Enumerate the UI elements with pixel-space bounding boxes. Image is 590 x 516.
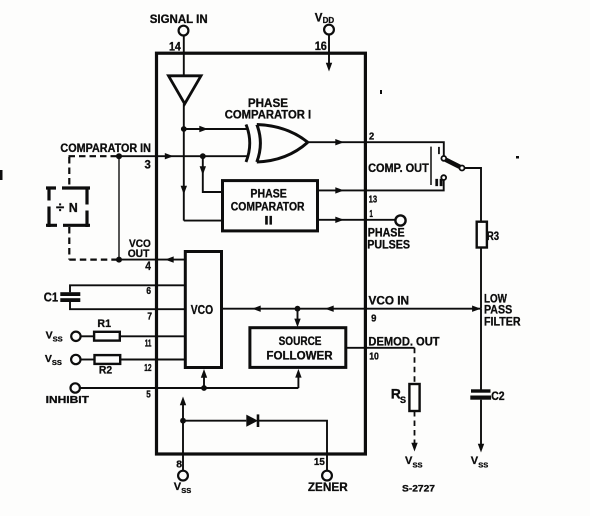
speck right	[516, 156, 519, 159]
svg-text:10: 10	[369, 350, 379, 362]
wire VSS to R2	[81, 359, 95, 361]
arrow down into SF	[294, 319, 300, 328]
arrow right on pin3 wire	[165, 153, 174, 159]
wire R1 to pin 11	[120, 335, 186, 337]
svg-text:COMPARATOR: COMPARATOR	[231, 201, 305, 213]
wire R2 to pin 12	[120, 359, 185, 361]
wire dashed down to RS	[414, 348, 416, 384]
capacitor C2	[471, 389, 491, 392]
wire VSS to R1	[81, 335, 95, 337]
svg-text:ZENER: ZENER	[308, 482, 349, 494]
arrow up VSS internal	[180, 397, 186, 406]
wire pin 1	[318, 219, 396, 221]
wire dashed RS down	[414, 411, 416, 443]
resistor R1	[94, 332, 120, 341]
svg-text:II: II	[264, 215, 272, 227]
svg-text:SIGNAL IN: SIGNAL IN	[150, 12, 208, 26]
svg-text:DEMOD. OUT: DEMOD. OUT	[368, 337, 439, 349]
speck top right	[380, 90, 382, 94]
switch contact II	[441, 175, 446, 180]
wire pin 8 internal VSS	[182, 403, 184, 471]
amplifier A1	[169, 76, 202, 104]
wire to XOR top input	[184, 128, 248, 130]
wire diode cathode to pin 15	[258, 421, 327, 471]
arrow down VSS (C2)	[478, 444, 484, 453]
capacitor C1	[60, 292, 80, 296]
svg-text:14: 14	[169, 41, 181, 53]
wire pin16 into package	[328, 35, 330, 65]
wire direct link node3 to node4	[118, 156, 120, 259]
svg-text:II: II	[435, 178, 444, 189]
terminal pin 15	[322, 471, 332, 481]
svg-text:S: S	[400, 395, 406, 405]
svg-text:PHASE: PHASE	[250, 188, 287, 200]
wire C1 bottom to pin 7	[70, 302, 185, 309]
wire pin3 branch down to PCII upper input	[203, 156, 223, 192]
wire pin 3 into package	[119, 155, 248, 157]
terminal pin 8	[178, 471, 188, 481]
svg-text:INHIBIT: INHIBIT	[46, 394, 90, 406]
svg-text:V: V	[315, 13, 323, 25]
svg-text:R3: R3	[487, 231, 499, 243]
svg-text:SS: SS	[53, 335, 63, 344]
svg-text:5: 5	[146, 390, 151, 401]
svg-text:15: 15	[314, 456, 325, 468]
wire DEMOD OUT (pin 10)	[346, 347, 415, 349]
bracket for switch positions	[430, 147, 432, 185]
arrow left on pin4 wire	[165, 256, 174, 262]
svg-text:PASS: PASS	[484, 304, 512, 316]
wire XOR output pin 2	[308, 142, 444, 156]
svg-text:3: 3	[145, 159, 151, 171]
svg-text:SS: SS	[181, 486, 191, 495]
wire C1 top to pin 6	[70, 285, 185, 292]
svg-text:C1: C1	[44, 290, 58, 304]
svg-text:VCO IN: VCO IN	[369, 296, 410, 308]
wire comparator in dashed	[69, 155, 120, 157]
VCO block	[185, 252, 221, 368]
svg-text:6: 6	[146, 285, 151, 297]
svg-text:PULSES: PULSES	[367, 240, 410, 252]
node comparator-in junction	[116, 153, 122, 159]
wire diode anode	[183, 420, 246, 422]
terminal INHIBIT	[71, 383, 80, 392]
svg-text:PHASE: PHASE	[368, 228, 405, 240]
arrow left mid	[325, 306, 334, 312]
arrow right on pin1 wire	[335, 217, 344, 223]
speck left edge	[0, 170, 3, 180]
svg-text:OUT: OUT	[128, 248, 150, 260]
wire pin14 to amplifier	[183, 36, 185, 77]
wire dashed divider top	[68, 157, 70, 186]
svg-text:R2: R2	[99, 365, 112, 377]
svg-text:8: 8	[176, 458, 182, 470]
svg-text:11: 11	[145, 338, 152, 350]
node amp output junction	[181, 126, 187, 132]
svg-text:C2: C2	[491, 391, 504, 403]
svg-text:S-2727: S-2727	[402, 484, 435, 494]
wire amp branch to PCII lower input	[184, 220, 223, 222]
arrow down on pin3 branch	[200, 166, 206, 175]
svg-text:SS: SS	[413, 460, 423, 469]
svg-text:COMPARATOR I: COMPARATOR I	[225, 110, 311, 122]
divider box ÷N (dashed, external)	[46, 186, 90, 189]
arrow down VSS (RS)	[411, 443, 417, 452]
svg-text:SOURCE: SOURCE	[279, 336, 322, 348]
node VCO-out junction	[116, 257, 122, 263]
node VCO-in to SF junction	[295, 306, 301, 312]
switch pivot	[460, 166, 465, 171]
svg-text:9: 9	[371, 313, 376, 325]
wire R3 down to LPF node	[480, 248, 482, 309]
svg-text:COMPARATOR IN: COMPARATOR IN	[60, 143, 151, 155]
wire pin 4	[119, 259, 185, 261]
IC package outline	[157, 53, 366, 454]
terminal pin 14	[179, 26, 189, 36]
arrow down on amp branch	[181, 186, 187, 195]
svg-text:PHASE: PHASE	[248, 98, 288, 110]
svg-text:V: V	[45, 353, 52, 365]
wire node down to C2	[480, 309, 482, 390]
svg-text:V: V	[46, 330, 53, 342]
svg-text:13: 13	[369, 193, 378, 205]
phase comparator I : XOR gate U1	[246, 125, 250, 163]
arrow up into VCO	[201, 369, 207, 378]
arrow right on XOR top input	[199, 126, 208, 132]
node inhibit-VCO junction	[201, 385, 207, 391]
svg-text:COMP. OUT: COMP. OUT	[368, 163, 429, 175]
svg-text:FOLLOWER: FOLLOWER	[266, 350, 333, 362]
svg-text:12: 12	[144, 362, 152, 374]
svg-text:7: 7	[147, 310, 152, 322]
wire up to VCO bottom	[203, 376, 205, 388]
wire dashed divider bottom	[69, 227, 119, 260]
svg-text:÷: ÷	[56, 199, 64, 216]
svg-text:1: 1	[369, 208, 373, 220]
svg-text:N: N	[69, 201, 78, 215]
svg-text:I: I	[438, 146, 441, 157]
arrow right at LPF node	[472, 306, 481, 312]
arrow left near VCO	[252, 306, 261, 312]
svg-text:4: 4	[145, 261, 151, 273]
diode D1 (zener)	[246, 415, 258, 427]
svg-text:SS: SS	[478, 460, 488, 469]
wire pivot to R3	[465, 168, 482, 222]
wire C2 down	[480, 400, 482, 444]
svg-text:16: 16	[315, 41, 327, 53]
arrow right on pin2 wire	[335, 139, 344, 145]
svg-text:SS: SS	[52, 358, 62, 367]
node pin3 branch junction	[200, 153, 206, 159]
terminal phase pulses	[395, 215, 405, 225]
terminal VSS R2	[71, 355, 80, 364]
arrow right on pin13 wire	[335, 187, 344, 193]
terminal VSS R1	[71, 332, 80, 341]
resistor R2	[95, 355, 121, 364]
wire amplifier output down	[183, 104, 185, 221]
resistor R3	[477, 222, 487, 248]
wire up to source follower bottom	[297, 376, 299, 388]
phase comparator II block U2	[223, 181, 318, 231]
switch lever	[446, 160, 460, 167]
arrow up into source follower	[295, 369, 301, 378]
arrow VDD down	[326, 63, 332, 72]
svg-text:VCO: VCO	[191, 303, 214, 317]
wire pin 13	[318, 180, 444, 190]
wire VCO IN (pin 9)	[222, 308, 481, 310]
source follower block	[250, 328, 346, 368]
wire inhibit pin 5	[80, 387, 299, 389]
resistor RS	[409, 384, 419, 411]
switch contact I	[441, 156, 446, 161]
node VSS-diode junction	[180, 418, 186, 424]
svg-text:FILTER: FILTER	[484, 317, 521, 329]
svg-text:2: 2	[369, 130, 374, 142]
wire down to SF top	[297, 309, 299, 321]
svg-text:R1: R1	[97, 318, 111, 330]
terminal pin 16	[324, 25, 334, 35]
